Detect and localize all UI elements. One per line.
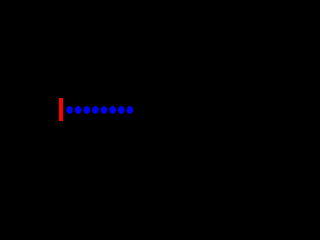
blue dot 1: [66, 106, 73, 114]
blue dot 8: [127, 106, 134, 114]
blue dot 2: [75, 106, 82, 114]
blue dot 3: [84, 106, 91, 114]
blue dot 7: [118, 106, 125, 114]
blue dot 4: [92, 106, 99, 114]
red vertical bar: [59, 98, 63, 121]
blue dot 6: [109, 106, 116, 114]
blue dot 5: [101, 106, 108, 114]
